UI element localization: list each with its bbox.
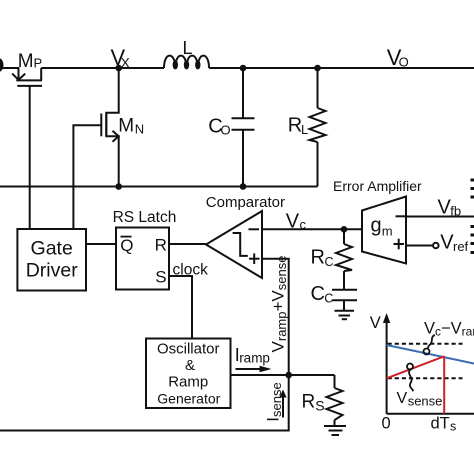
svg-text:Q: Q <box>120 236 133 255</box>
svg-text:L: L <box>183 38 193 58</box>
svg-text:V: V <box>370 314 381 332</box>
transistor M_N <box>101 68 118 187</box>
label Comparator <box>206 194 285 211</box>
svg-text:0: 0 <box>382 415 391 433</box>
svg-text:c: c <box>300 217 307 232</box>
svg-text:Ramp: Ramp <box>168 374 208 391</box>
Oscillator and Ramp Generator block <box>146 339 231 409</box>
label V_c <box>286 210 307 232</box>
wire summing node to R_S <box>289 374 335 376</box>
svg-text:Generator: Generator <box>157 390 220 406</box>
wire comparator + input to summing node <box>262 259 289 375</box>
graph: red V_sense ramp <box>387 356 445 378</box>
svg-text:P: P <box>34 55 43 70</box>
svg-text:M: M <box>18 51 34 72</box>
wire Gate Driver to RS latch <box>86 243 116 245</box>
svg-text:g: g <box>371 215 382 237</box>
label clock <box>173 262 209 279</box>
dotted continuation marks at right edge <box>471 179 474 255</box>
latch pin Qbar <box>121 236 132 238</box>
wire top rail inductor to right edge (V_O) <box>209 67 474 69</box>
label V_fb <box>438 196 462 218</box>
label C_O <box>208 115 230 137</box>
node M_N source on rail <box>115 183 122 190</box>
svg-text:Error Amplifier: Error Amplifier <box>333 178 422 194</box>
arrow I_sense <box>279 390 286 418</box>
svg-text:dT: dT <box>431 415 450 433</box>
svg-text:V: V <box>286 210 300 232</box>
label I_ramp <box>235 345 270 366</box>
svg-text:S: S <box>315 398 324 414</box>
label V (graph) <box>370 314 381 332</box>
label M_P <box>18 51 42 72</box>
arrow I_ramp <box>236 366 272 373</box>
svg-text:ramp: ramp <box>239 351 270 366</box>
capacitor C_C <box>332 290 357 311</box>
wire latch R to comparator output <box>169 243 206 245</box>
label I_sense (rotated) <box>264 382 285 421</box>
Gate Driver block <box>17 229 86 291</box>
label 0 <box>382 415 391 433</box>
resistor R_C <box>336 229 352 289</box>
wire V_ref with terminal <box>406 245 433 247</box>
svg-text:L: L <box>301 122 308 137</box>
callout to red line <box>407 364 413 392</box>
input source (cropped ellipse at left edge) <box>0 58 4 72</box>
svg-text:R: R <box>155 235 167 254</box>
svg-text:sense: sense <box>408 394 443 409</box>
graph: red reset edge <box>443 356 445 413</box>
label C_C <box>311 283 334 306</box>
inductor L <box>164 56 209 69</box>
node V_c / R_C <box>341 226 348 233</box>
svg-text:ref: ref <box>453 239 469 254</box>
graph: V axis <box>383 313 390 414</box>
svg-text:O: O <box>221 123 231 138</box>
label R_L <box>288 115 308 138</box>
svg-text:&: & <box>185 357 195 374</box>
label V_c-V_ramp (clipped) <box>424 320 474 339</box>
callout to blue line <box>424 335 435 355</box>
svg-text:N: N <box>135 121 144 136</box>
label RS Latch <box>113 209 177 226</box>
RS latch block <box>116 228 169 290</box>
label R_S <box>302 392 325 414</box>
ground under C_C <box>335 311 355 319</box>
capacitor C_O <box>232 68 255 187</box>
wire V_c: comparator - input to error amp output <box>262 228 362 230</box>
node V_X <box>115 65 122 72</box>
wire oscillator output to summing node <box>231 374 289 376</box>
wire M_N gate to Gate Driver <box>73 125 101 229</box>
node summing junction <box>285 372 292 379</box>
svg-text:Gate: Gate <box>31 238 73 260</box>
svg-text:Oscillator: Oscillator <box>157 340 220 357</box>
label L <box>183 38 193 58</box>
svg-text:m: m <box>382 224 393 239</box>
label g_m <box>371 215 393 239</box>
graph: dashed level V_c-V_ramp <box>388 343 463 345</box>
svg-text:V: V <box>397 390 408 407</box>
label dT_s <box>431 415 457 434</box>
label V_X <box>111 45 130 70</box>
svg-text:clock: clock <box>173 262 209 279</box>
graph: blue V_c-V_ramp line <box>387 345 474 364</box>
ground under R_S <box>324 426 346 435</box>
svg-text:O: O <box>399 55 409 70</box>
graph: dashed level valley <box>388 377 463 379</box>
label Error Amplifier <box>333 178 422 194</box>
wire top rail M_P drain to inductor <box>41 67 164 69</box>
error amplifier U2 (gm) <box>362 197 406 264</box>
svg-text:C: C <box>324 292 333 306</box>
svg-text:C: C <box>311 283 325 305</box>
wire M_P gate to Gate Driver <box>29 86 31 229</box>
svg-text:S: S <box>155 268 166 287</box>
label V_ref <box>440 232 468 255</box>
svg-text:R: R <box>311 247 325 269</box>
label V_sense (graph) <box>397 390 443 409</box>
node R_L top <box>314 65 321 72</box>
wire I_sense return <box>0 375 289 431</box>
svg-text:s: s <box>450 420 456 434</box>
wire latch S to clock / oscillator <box>169 276 192 339</box>
node C_O bottom <box>240 183 247 190</box>
svg-text:M: M <box>118 115 134 136</box>
resistor R_L <box>310 68 326 187</box>
svg-text:RS Latch: RS Latch <box>113 209 177 226</box>
ground rail <box>0 186 318 188</box>
svg-text:Comparator: Comparator <box>206 194 285 211</box>
resistor R_S <box>327 375 343 426</box>
label R_C <box>311 247 334 270</box>
node C_O top <box>240 65 247 72</box>
comparator U1 <box>206 211 262 278</box>
label V_ramp+V_sense (rotated) <box>269 256 290 353</box>
svg-text:fb: fb <box>450 203 461 218</box>
wire V_fb <box>406 216 474 218</box>
label M_N <box>118 115 144 136</box>
graph: time axis <box>387 413 474 415</box>
svg-text:Driver: Driver <box>26 260 79 282</box>
svg-text:X: X <box>121 55 130 70</box>
transistor M_P <box>12 68 42 86</box>
svg-text:C: C <box>325 255 334 269</box>
label V_O <box>387 45 409 70</box>
wire input to M_P source <box>0 68 19 80</box>
svg-text:R: R <box>302 392 316 413</box>
